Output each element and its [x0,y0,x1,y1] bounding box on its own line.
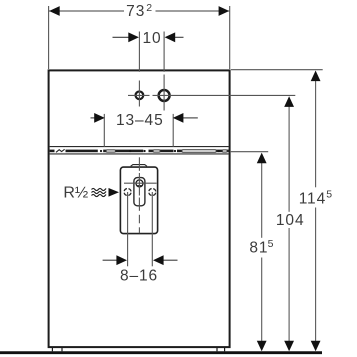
svg-text:5: 5 [268,238,274,250]
svg-text:8–16: 8–16 [120,267,158,284]
svg-text:13–45: 13–45 [116,112,164,129]
svg-text:104: 104 [276,212,305,229]
svg-text:81: 81 [249,239,268,256]
svg-text:73: 73 [126,3,145,20]
svg-text:114: 114 [299,190,326,207]
svg-text:R½: R½ [63,184,88,201]
svg-text:2: 2 [146,2,152,14]
svg-text:5: 5 [326,189,332,201]
svg-text:10: 10 [142,30,161,47]
